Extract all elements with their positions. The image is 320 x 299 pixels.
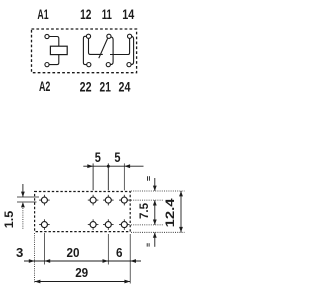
dimension 12.4 outline width: [163, 191, 183, 232]
dotted reference line pin row 1: [131, 199, 163, 201]
movable contact blade pole 1: [99, 38, 108, 58]
wire A2 to coil: [49, 55, 59, 65]
svg-text:21: 21: [100, 78, 111, 94]
coil K1 rectangle: [50, 46, 67, 54]
dotted reference line rect top right: [131, 190, 185, 192]
wire A1 to coil: [49, 37, 59, 47]
svg-text:6: 6: [116, 245, 123, 260]
dimension 7.5 row spacing: [137, 200, 157, 225]
terminal 12: [86, 34, 90, 38]
terminal label A2: [39, 78, 51, 94]
dimension 5 5 pin spacing: [83, 149, 143, 190]
equal margin marker top: [148, 176, 157, 191]
terminal A2: [45, 63, 49, 67]
pad hole 12: [88, 195, 99, 206]
svg-text:1.5: 1.5: [2, 210, 16, 228]
svg-text:5: 5: [114, 149, 120, 165]
terminal 21: [106, 63, 110, 67]
terminal label 14: [122, 6, 134, 22]
terminal 14: [128, 34, 132, 38]
svg-text:20: 20: [67, 245, 80, 260]
wire bracket 12 to 22: [83, 36, 86, 64]
svg-text:7.5: 7.5: [137, 203, 151, 219]
svg-text:A1: A1: [37, 6, 48, 22]
terminal label 22: [80, 78, 92, 94]
terminal 24: [127, 63, 131, 67]
svg-text:5: 5: [95, 149, 101, 165]
pad hole 11: [103, 195, 114, 206]
terminal 11: [107, 34, 111, 38]
dotted reference line pin row 2: [131, 224, 163, 226]
pad hole A2: [39, 219, 50, 230]
svg-text:12: 12: [80, 6, 91, 22]
svg-text:24: 24: [119, 78, 131, 94]
terminal label 24: [119, 78, 131, 94]
wire bracket 14 to 24: [131, 36, 134, 64]
pad hole 24: [119, 219, 130, 230]
extension line pin column 1: [43, 233, 45, 265]
wire bracket 11 to 21: [111, 37, 114, 65]
terminal 22: [87, 63, 91, 67]
extension line pin column 3: [107, 234, 109, 265]
svg-text:A2: A2: [39, 78, 51, 94]
relay outline dashed rectangle bottom view: [35, 192, 131, 232]
pad hole 22: [88, 219, 99, 230]
wire 14 to NO contact: [110, 39, 130, 55]
pad hole A1: [39, 195, 50, 206]
extension line rect right edge: [129, 234, 131, 284]
svg-text:14: 14: [122, 6, 134, 22]
equal margin marker bottom: [147, 232, 157, 246]
relay enclosure dashed box: [32, 29, 137, 73]
dimension 1.5 pin offset: [2, 184, 39, 229]
svg-text:22: 22: [80, 78, 92, 94]
wire 12 to NC contact: [89, 39, 103, 55]
dimension 29 overall: [35, 265, 131, 283]
terminal A1: [45, 34, 49, 38]
extension line rect left edge: [34, 233, 36, 284]
terminal label 12: [80, 6, 91, 22]
dimension 3 20 6 chain: [16, 245, 141, 263]
pad hole 14: [119, 195, 130, 206]
terminal label 21: [100, 78, 111, 94]
terminal label A1: [37, 6, 48, 22]
pad hole 21: [103, 219, 114, 230]
svg-text:12.4: 12.4: [163, 198, 177, 227]
svg-text:29: 29: [75, 265, 88, 280]
terminal label 11: [102, 6, 112, 22]
dotted reference line rect bottom right: [131, 231, 185, 233]
svg-text:3: 3: [16, 245, 23, 260]
svg-text:11: 11: [102, 6, 112, 22]
